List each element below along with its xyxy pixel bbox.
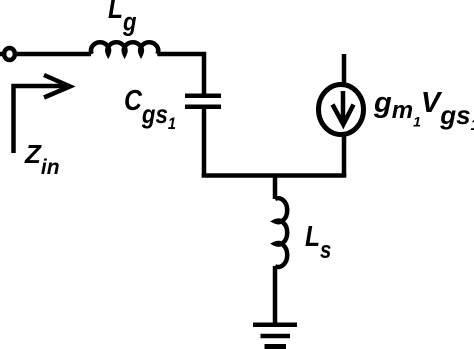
inductor Ls bbox=[275, 198, 287, 267]
wire capacitor to node bbox=[202, 107, 207, 178]
wire drain stub bbox=[342, 54, 347, 84]
label gm1Vgs1 bbox=[374, 89, 474, 134]
wire Lg to corner bbox=[157, 54, 204, 96]
node wire (source node) bbox=[202, 173, 347, 178]
wire Ls to ground bbox=[273, 266, 278, 327]
wire input stub bbox=[0, 52, 4, 57]
inductor Lg bbox=[91, 42, 158, 54]
wire node to Ls bbox=[273, 176, 278, 200]
current source U1 circle bbox=[319, 85, 364, 135]
label Cgs1 bbox=[124, 87, 176, 132]
input terminal (open circle) bbox=[4, 48, 15, 60]
capacitor Cgs1 top plate bbox=[185, 94, 221, 99]
wire gate bbox=[15, 52, 91, 57]
Zin arrow bbox=[12, 75, 71, 153]
wire source to node bbox=[342, 135, 347, 177]
label Zin bbox=[25, 141, 60, 178]
current source arrow bbox=[333, 91, 354, 125]
ground bbox=[253, 325, 297, 347]
label Ls bbox=[305, 223, 331, 263]
label Lg bbox=[108, 0, 137, 35]
capacitor Cgs1 bottom plate bbox=[185, 105, 221, 110]
